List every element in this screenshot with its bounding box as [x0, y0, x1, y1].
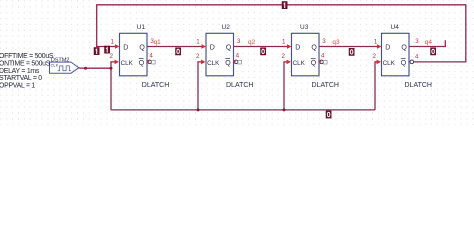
pin arrow U2 CLK: [201, 60, 206, 65]
svg-text:DLATCH: DLATCH: [226, 82, 253, 89]
svg-text:4: 4: [149, 52, 153, 59]
svg-text:3: 3: [322, 38, 326, 45]
svg-text:2: 2: [110, 53, 114, 60]
wire: clock riser U3: [284, 62, 289, 110]
junction bus U2: [197, 108, 200, 111]
svg-text:CLK: CLK: [383, 60, 396, 67]
svg-text:ONTIME = 500uS: ONTIME = 500uS: [0, 61, 51, 68]
U1 Q-bar red cross: [147, 61, 150, 64]
junction clock node U1: [110, 67, 113, 70]
pin arrow U4 CLK: [377, 60, 382, 65]
state square on net q4 (0): [431, 48, 436, 55]
U3 Q-bar bubble: [320, 60, 324, 64]
svg-text:2: 2: [196, 53, 200, 60]
svg-text:CLK: CLK: [121, 60, 134, 67]
U1 floating pin square: [152, 60, 156, 64]
svg-text:Q: Q: [401, 45, 407, 52]
state square on top rail (1): [282, 2, 287, 9]
svg-text:4: 4: [236, 52, 240, 59]
svg-text:Q: Q: [225, 60, 231, 67]
svg-text:3: 3: [237, 38, 241, 45]
U2 Q-bar bubble: [234, 60, 238, 64]
svg-text:4: 4: [415, 54, 419, 61]
svg-text:OFFTIME = 500uS: OFFTIME = 500uS: [0, 53, 54, 60]
svg-text:U1: U1: [137, 24, 146, 31]
svg-text:U4: U4: [391, 24, 400, 31]
pin arrow U4 D: [377, 44, 382, 49]
svg-text:CLK: CLK: [207, 60, 220, 67]
svg-text:q3: q3: [332, 39, 340, 46]
wire: U2 Q to U3 D (net q2): [234, 46, 290, 48]
svg-text:q2: q2: [248, 39, 256, 46]
svg-text:Q: Q: [226, 45, 232, 52]
U4 Q-bar bubble: [410, 60, 414, 64]
pin arrow U1 CLK: [115, 60, 120, 65]
svg-text:3: 3: [415, 38, 419, 45]
wire: DSTM2 output to clock node: [86, 67, 112, 69]
svg-text:1: 1: [196, 39, 200, 46]
svg-text:D: D: [210, 45, 215, 52]
svg-text:Q: Q: [139, 45, 145, 52]
svg-text:2: 2: [373, 53, 377, 60]
svg-text:U2: U2: [222, 24, 231, 31]
pin arrow U3 CLK: [287, 60, 292, 65]
state square on U1 D wire (1): [105, 46, 110, 53]
svg-text:Q: Q: [311, 45, 317, 52]
digital clock source DSTM2: [50, 57, 86, 73]
wire: feedback net from U4 Q-bar to U1 D (top rail): [97, 5, 466, 62]
svg-text:DSTM2: DSTM2: [51, 57, 70, 63]
svg-text:2: 2: [282, 53, 286, 60]
svg-text:1: 1: [374, 39, 378, 46]
state square on clock bus (0): [326, 111, 331, 118]
svg-text:D: D: [385, 45, 390, 52]
state square on net q1 (0): [176, 48, 181, 55]
svg-text:1: 1: [282, 39, 286, 46]
U3 floating pin square: [324, 60, 328, 64]
wire: U4 Q stub (net q4): [409, 40, 445, 46]
svg-text:4: 4: [321, 52, 325, 59]
state square on feedback rail at U1 D (1): [94, 48, 99, 55]
svg-text:CLK: CLK: [51, 63, 59, 68]
wire: clock bus bottom: [111, 109, 375, 111]
D latch U2 body: [206, 33, 234, 76]
svg-text:DLATCH: DLATCH: [405, 82, 432, 89]
svg-text:1: 1: [111, 39, 115, 46]
svg-text:DELAY = 1ms: DELAY = 1ms: [0, 68, 40, 75]
svg-text:q4: q4: [425, 39, 433, 46]
svg-text:Q: Q: [311, 60, 317, 67]
svg-text:STARTVAL = 0: STARTVAL = 0: [0, 75, 42, 82]
wire: clock riser U2: [198, 62, 204, 110]
state square on net q2 (0): [261, 48, 266, 55]
svg-text:q1: q1: [154, 39, 162, 46]
D latch U4 body: [382, 33, 410, 76]
svg-text:D: D: [295, 45, 300, 52]
wire: U1 Q to U2 D (net q1): [147, 46, 204, 48]
svg-text:U3: U3: [300, 24, 309, 31]
pin arrow U2 D: [202, 44, 207, 49]
D latch U3 body: [292, 33, 320, 76]
U3 Q-bar red cross: [319, 61, 322, 64]
wire: clock riser U1: [111, 62, 117, 110]
wire: U3 Q to U4 D (net q3): [319, 46, 379, 48]
DSTM2 attribute text block: [0, 53, 54, 89]
D latch U1 body: [120, 33, 148, 76]
pin arrow U1 D: [115, 44, 120, 49]
junction bus U3: [283, 108, 286, 111]
svg-text:DLATCH: DLATCH: [142, 82, 169, 89]
U2 floating pin square: [238, 60, 242, 64]
svg-text:CLK: CLK: [293, 60, 306, 67]
svg-text:OPPVAL = 1: OPPVAL = 1: [0, 82, 35, 89]
svg-text:Q: Q: [139, 60, 145, 67]
svg-text:DLATCH: DLATCH: [312, 82, 339, 89]
U2 Q-bar red cross: [233, 61, 236, 64]
pin arrow U3 D: [287, 44, 292, 49]
state square on net q3 (0): [349, 48, 354, 55]
junction at DSTM2 output: [84, 67, 87, 70]
U1 Q-bar bubble: [148, 60, 152, 64]
wire: clock riser U4: [375, 62, 379, 110]
svg-text:D: D: [123, 45, 128, 52]
svg-text:Q: Q: [401, 60, 407, 67]
